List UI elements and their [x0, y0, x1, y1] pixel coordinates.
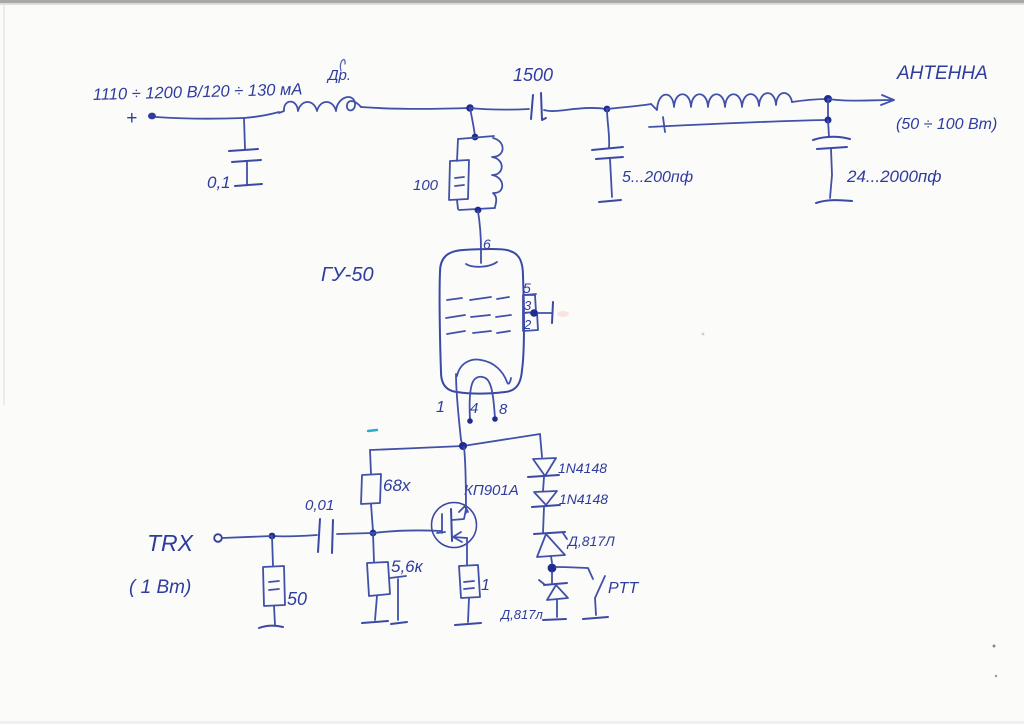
svg-text:ГУ-50: ГУ-50	[321, 264, 374, 286]
svg-text:8: 8	[499, 401, 508, 418]
svg-text:24...2000пф: 24...2000пф	[846, 167, 941, 186]
wire input to filter cap node	[156, 117, 244, 119]
ground stub beside 5,6к	[390, 576, 406, 578]
source wire	[466, 538, 468, 565]
node anode rail	[466, 104, 474, 112]
wire choke to anode node	[361, 107, 470, 109]
svg-text:5...200пф: 5...200пф	[622, 169, 693, 186]
tube bottom dome	[457, 360, 511, 384]
suppressor bottom bar	[459, 208, 495, 210]
grid ground stub	[538, 312, 551, 314]
wire rail corner to diode chain	[540, 434, 542, 457]
heater filament	[470, 377, 495, 420]
node antenna lower	[825, 117, 832, 124]
resistor 5,6к	[373, 533, 374, 562]
svg-text:5,6к: 5,6к	[391, 557, 424, 576]
grid row 1	[447, 298, 462, 300]
suppressor top bar	[458, 136, 494, 139]
faint pink smudge	[557, 311, 569, 317]
node PTT	[548, 564, 557, 573]
stray cyan mark	[368, 430, 377, 431]
node cathode rail	[459, 442, 467, 450]
svg-text:2: 2	[523, 317, 532, 332]
resistor 100	[457, 139, 458, 161]
svg-text:PTT: PTT	[608, 580, 639, 597]
svg-text:1N4148: 1N4148	[558, 460, 607, 476]
svg-text:КП901А: КП901А	[464, 482, 519, 499]
capacitor 0,1	[244, 118, 245, 149]
pin box 3	[523, 295, 536, 313]
resistor 50	[272, 536, 273, 566]
zener D4 Д817А	[551, 572, 553, 583]
svg-text:( 1 Вт): ( 1 Вт)	[129, 577, 191, 598]
svg-text:4: 4	[470, 400, 478, 417]
svg-text:(50 ÷ 100 Вт): (50 ÷ 100 Вт)	[896, 116, 997, 133]
anode plate	[480, 249, 482, 263]
wire to choke	[244, 112, 279, 118]
cathode rail right	[463, 434, 540, 446]
input terminal	[214, 534, 222, 542]
svg-text:1: 1	[481, 577, 490, 594]
grid node	[530, 309, 538, 317]
tube envelope	[440, 249, 524, 394]
svg-text:Др.: Др.	[326, 67, 351, 84]
grid row 3	[447, 331, 465, 334]
svg-text:АНТЕННА: АНТЕННА	[896, 63, 988, 84]
node input	[269, 533, 276, 540]
variable capacitor 5...200пф	[607, 109, 609, 147]
svg-text:Д,817л: Д,817л	[499, 607, 543, 622]
node suppressor bottom	[475, 207, 482, 214]
svg-text:1500: 1500	[513, 65, 553, 85]
svg-text:+: +	[126, 108, 137, 129]
svg-text:0,01: 0,01	[305, 497, 334, 514]
svg-text:1N4148: 1N4148	[559, 491, 608, 507]
diode D2 1N4148	[534, 491, 557, 505]
wire to antenna arrow	[828, 99, 891, 101]
input wire	[222, 536, 272, 538]
pin box 2	[523, 312, 538, 331]
PTT branch wire	[556, 567, 593, 579]
svg-text:0,1: 0,1	[207, 173, 231, 192]
cathode rail left	[370, 446, 463, 450]
wire suppressor to tube anode pin 6	[478, 211, 481, 249]
cathode wire pin1 to rail node	[456, 374, 463, 446]
wire anode node to suppressor	[470, 108, 475, 136]
gate wire	[373, 530, 441, 533]
resistor 68к	[370, 450, 371, 474]
svg-text:50: 50	[287, 589, 307, 609]
variable inductor arrow	[649, 120, 826, 127]
diode D1 1N4148	[533, 458, 556, 476]
node gate	[370, 530, 377, 537]
variable capacitor 24...2000пф	[828, 120, 829, 137]
zener D3 Д817А	[534, 532, 565, 534]
svg-text:3: 3	[524, 298, 532, 313]
wire link antenna nodes	[827, 99, 829, 119]
svg-text:68х: 68х	[383, 476, 411, 495]
wire inductor to antenna node	[792, 99, 828, 102]
node tune	[604, 106, 611, 113]
node suppressor top	[472, 134, 479, 141]
wire node to tank inductor	[607, 104, 651, 109]
svg-text:5: 5	[523, 280, 531, 296]
svg-text:1: 1	[436, 399, 445, 416]
wire	[543, 477, 544, 491]
wire	[551, 556, 552, 563]
wire node to capacitor 1500	[470, 108, 529, 110]
wire	[543, 507, 544, 533]
svg-text:TRX: TRX	[147, 530, 195, 556]
wire coupling cap to gate node	[337, 533, 373, 534]
svg-text:Д,817Л: Д,817Л	[566, 533, 615, 549]
svg-text:100: 100	[413, 177, 439, 194]
faint specks	[993, 645, 996, 648]
suppressor coil	[492, 138, 503, 207]
PTT switch arm	[595, 576, 605, 598]
drain wire	[464, 447, 466, 513]
tank inductor	[651, 93, 792, 110]
wire 1500 to tune node	[544, 108, 607, 111]
resistor 1	[459, 565, 480, 598]
node antenna top	[824, 95, 832, 103]
grid row 2	[446, 315, 465, 318]
